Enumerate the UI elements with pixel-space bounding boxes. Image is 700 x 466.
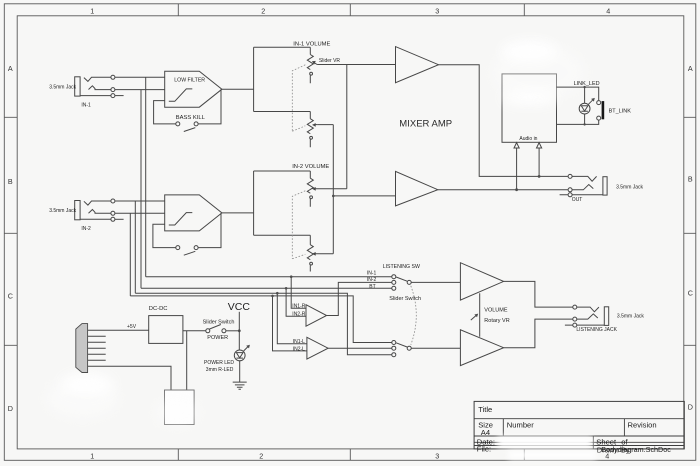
- svg-text:VOLUME: VOLUME: [484, 307, 508, 313]
- svg-text:2: 2: [259, 451, 263, 460]
- connector J2 3.5mm jack IN-2: [75, 199, 115, 221]
- wire IN-2 sleeve stub: [115, 218, 124, 220]
- wire mixer L output to OUT ring: [438, 189, 568, 191]
- pushbutton SW3 BT_LINK: [597, 101, 604, 121]
- switch SW4 listening R: [392, 275, 411, 291]
- wire buffer R output to switch: [327, 282, 392, 315]
- svg-text:BT_LINK: BT_LINK: [609, 109, 632, 115]
- svg-text:Audio in: Audio in: [519, 136, 537, 142]
- svg-text:IN1-L: IN1-L: [293, 339, 305, 345]
- svg-text:DC-DC: DC-DC: [149, 306, 168, 312]
- svg-text:IN-2: IN-2: [367, 277, 377, 283]
- wire IN-1 tip to filter: [115, 76, 165, 78]
- svg-text:Rotary VR: Rotary VR: [484, 318, 509, 324]
- svg-text:IN-2: IN-2: [81, 226, 91, 232]
- module U4 DC-DC: [149, 316, 183, 344]
- wire power amp R to jack: [504, 281, 573, 307]
- wire IN-1 ring to filter: [115, 89, 165, 91]
- junction tap IN1-L: [276, 292, 279, 295]
- white glow artifact over module: [492, 40, 584, 105]
- wire IN-2 tip to filter: [115, 200, 165, 202]
- svg-text:1: 1: [90, 6, 94, 15]
- svg-text:POWER: POWER: [207, 335, 228, 341]
- svg-text:A: A: [8, 64, 13, 73]
- module U3 audio-in box: [502, 74, 557, 142]
- wire buffer L output to switch: [328, 347, 392, 349]
- svg-text:3mm R-LED: 3mm R-LED: [206, 367, 234, 373]
- wire tap IN2-L: [273, 296, 307, 351]
- potentiometer VR1b slider: [307, 112, 317, 148]
- wire VR2a wiper up to mixer amp R input: [316, 65, 347, 189]
- svg-text:MIXER AMP: MIXER AMP: [399, 118, 452, 129]
- svg-text:D: D: [688, 402, 693, 411]
- svg-text:Title: Title: [478, 405, 492, 414]
- USB pin stubs: [88, 336, 106, 360]
- svg-text:Revision: Revision: [628, 421, 657, 430]
- svg-text:LINK_LED: LINK_LED: [574, 81, 600, 87]
- potentiometer VR3 rotary volume: [471, 293, 480, 337]
- svg-text:POWER LED: POWER LED: [204, 360, 234, 366]
- wire bass kill 1 riser: [154, 101, 176, 124]
- wire IN-1 sleeve stub: [115, 95, 124, 97]
- svg-text:3.5mm Jack: 3.5mm Jack: [49, 85, 76, 91]
- svg-text:D: D: [8, 404, 13, 413]
- frame row ticks right: [684, 117, 696, 345]
- wire filter2 output: [222, 212, 254, 214]
- junction mixer L input: [332, 195, 335, 198]
- ground symbol: [233, 382, 247, 389]
- wire DC-DC to power switch: [183, 330, 206, 332]
- svg-text:+5V: +5V: [127, 324, 137, 330]
- op-amp A5 power amp R: [460, 263, 503, 300]
- wire switch R to power amp: [411, 281, 460, 283]
- potentiometer VR2a slider: [307, 171, 315, 207]
- white glow artifact over battery: [155, 398, 199, 426]
- arrow head L: [514, 143, 519, 148]
- potentiometer VR2b slider: [307, 235, 315, 271]
- svg-text:IN-1: IN-1: [367, 271, 377, 277]
- wire power switch to VCC rail: [226, 330, 239, 332]
- connector J3 3.5mm jack OUT: [560, 174, 608, 196]
- switch SW5 power slider: [206, 325, 226, 333]
- dashed gang link VR2: [292, 191, 305, 259]
- wire IN-2 bus drop B: [129, 213, 131, 296]
- wire module audio R arrow: [538, 148, 540, 177]
- wire bus L1: [146, 276, 392, 278]
- svg-text:IN2-L: IN2-L: [293, 347, 305, 353]
- svg-text:A: A: [688, 64, 693, 73]
- svg-text:LISTENING JACK: LISTENING JACK: [576, 327, 617, 333]
- connector USB: [76, 324, 88, 373]
- connector J4 listening jack: [565, 305, 609, 327]
- switch SW1 bass kill 1: [176, 122, 198, 132]
- title block outline: [474, 401, 684, 449]
- wire link led net bottom: [557, 120, 599, 124]
- svg-text:Number: Number: [507, 421, 534, 430]
- wire VR1b wiper down bus: [317, 125, 333, 254]
- wire power amp L to jack: [504, 319, 573, 348]
- wire VR2b wiper to bus: [316, 253, 334, 255]
- wire bass kill 2 riser: [153, 224, 176, 247]
- svg-text:IN2-R: IN2-R: [292, 312, 305, 318]
- junction VCC rail: [238, 329, 241, 332]
- wire USB ground to battery: [88, 366, 171, 390]
- wire +5V to DC-DC: [88, 329, 149, 331]
- node IN-2 VOLUME bracket: [254, 171, 311, 235]
- battery B1: [165, 390, 195, 425]
- wire bus L3: [135, 293, 391, 355]
- op-amp A6 power amp L: [460, 330, 503, 366]
- svg-text:3.5mm Jack: 3.5mm Jack: [616, 184, 643, 190]
- svg-text:A4: A4: [481, 428, 490, 437]
- svg-text:3: 3: [435, 451, 439, 460]
- title block vertical dividers: [503, 419, 624, 449]
- wire mixer R output to OUT tip: [439, 65, 568, 177]
- wire IN-2 bus drop A: [134, 201, 136, 293]
- junction tap IN2-L: [271, 295, 274, 298]
- frame column ticks top: [178, 4, 524, 16]
- svg-text:Slider VR: Slider VR: [319, 58, 341, 64]
- wire tap IN1-L: [277, 293, 307, 344]
- wire VR1a wiper to mixer amp R: [317, 64, 395, 66]
- wire VCC rail: [238, 312, 240, 350]
- wire link led net top: [557, 87, 599, 100]
- diode D2 power LED: [234, 345, 250, 361]
- svg-text:3: 3: [435, 6, 439, 15]
- svg-text:BT: BT: [369, 284, 375, 290]
- wire switch L to power amp: [411, 347, 460, 349]
- svg-text:3.5mm Jack: 3.5mm Jack: [49, 208, 76, 214]
- svg-text:VCC: VCC: [228, 301, 251, 313]
- svg-text:3.5mm Jack: 3.5mm Jack: [617, 313, 644, 319]
- svg-text:Slider Switch: Slider Switch: [203, 319, 235, 325]
- junction tap IN2-R: [285, 287, 288, 290]
- wire IN-2 ring to filter: [115, 212, 165, 214]
- op-amp A2 mixer L: [396, 171, 438, 206]
- svg-text:Slider Switch: Slider Switch: [389, 296, 421, 302]
- wire bass kill 1 return: [198, 89, 221, 124]
- white blob over file field: [508, 450, 596, 460]
- dashed gang link listening switch: [411, 286, 417, 345]
- svg-text:LOW FILTER: LOW FILTER: [174, 77, 205, 83]
- svg-text:File:: File:: [477, 444, 491, 453]
- svg-text:LISTENING SW: LISTENING SW: [383, 264, 420, 270]
- svg-text:C: C: [688, 288, 693, 297]
- svg-text:IN-1: IN-1: [81, 103, 91, 109]
- frame column ticks bottom: [178, 449, 524, 460]
- frame row ticks left: [4, 117, 17, 345]
- wire mixer amp L input branch: [333, 195, 395, 197]
- potentiometer VR1a slider: [307, 47, 317, 83]
- wire IN-1 bus drop B: [140, 90, 142, 289]
- low filter U2: [165, 195, 222, 231]
- junction audio L: [515, 188, 518, 191]
- svg-text:4: 4: [606, 6, 610, 15]
- svg-text:B: B: [8, 177, 13, 186]
- node IN-1 VOLUME bracket: [254, 47, 311, 111]
- white glow artifact near USB: [46, 373, 118, 418]
- wire bus L4: [130, 296, 391, 343]
- junction tap IN1-R: [290, 275, 293, 278]
- svg-text:IN-1 VOLUME: IN-1 VOLUME: [293, 42, 330, 48]
- op-amp A3 buffer R: [306, 305, 327, 327]
- wire bus L2: [141, 287, 392, 289]
- svg-text:C: C: [8, 291, 13, 300]
- wire battery to switch node: [186, 331, 188, 390]
- dashed gang link VR1: [292, 65, 305, 132]
- wire IN-1 bus drop A: [145, 77, 147, 276]
- svg-text:B: B: [688, 174, 693, 183]
- low filter U1: [165, 71, 222, 107]
- white blob over date field: [497, 436, 592, 448]
- op-amp A1 mixer R: [396, 47, 439, 83]
- switch SW2 bass kill 2: [176, 246, 198, 256]
- svg-text:BASS KILL: BASS KILL: [176, 115, 206, 121]
- wire tap IN2-R: [286, 288, 306, 316]
- svg-text:IN1-R: IN1-R: [292, 304, 305, 310]
- junction audio R: [538, 175, 541, 178]
- wire tap IN1-R: [291, 277, 306, 309]
- switch SW4 listening L: [392, 341, 411, 357]
- wire filter1 output: [222, 88, 254, 90]
- svg-text:2: 2: [261, 6, 265, 15]
- arrow head R: [537, 143, 542, 148]
- svg-text:1: 1: [90, 451, 94, 460]
- svg-text:OUT: OUT: [572, 197, 583, 203]
- wire bass kill 2 return: [198, 213, 221, 248]
- wire module audio L arrow: [516, 148, 518, 190]
- op-amp A4 buffer L: [307, 337, 328, 359]
- diode D1 LINK LED: [579, 86, 595, 126]
- wire LED to ground: [239, 361, 241, 382]
- title block horizontal dividers: [474, 419, 684, 446]
- svg-text:IN-2 VOLUME: IN-2 VOLUME: [292, 164, 329, 170]
- svg-text:Bodydiagram.SchDoc: Bodydiagram.SchDoc: [601, 445, 671, 454]
- connector J1 3.5mm jack IN-1: [75, 75, 115, 97]
